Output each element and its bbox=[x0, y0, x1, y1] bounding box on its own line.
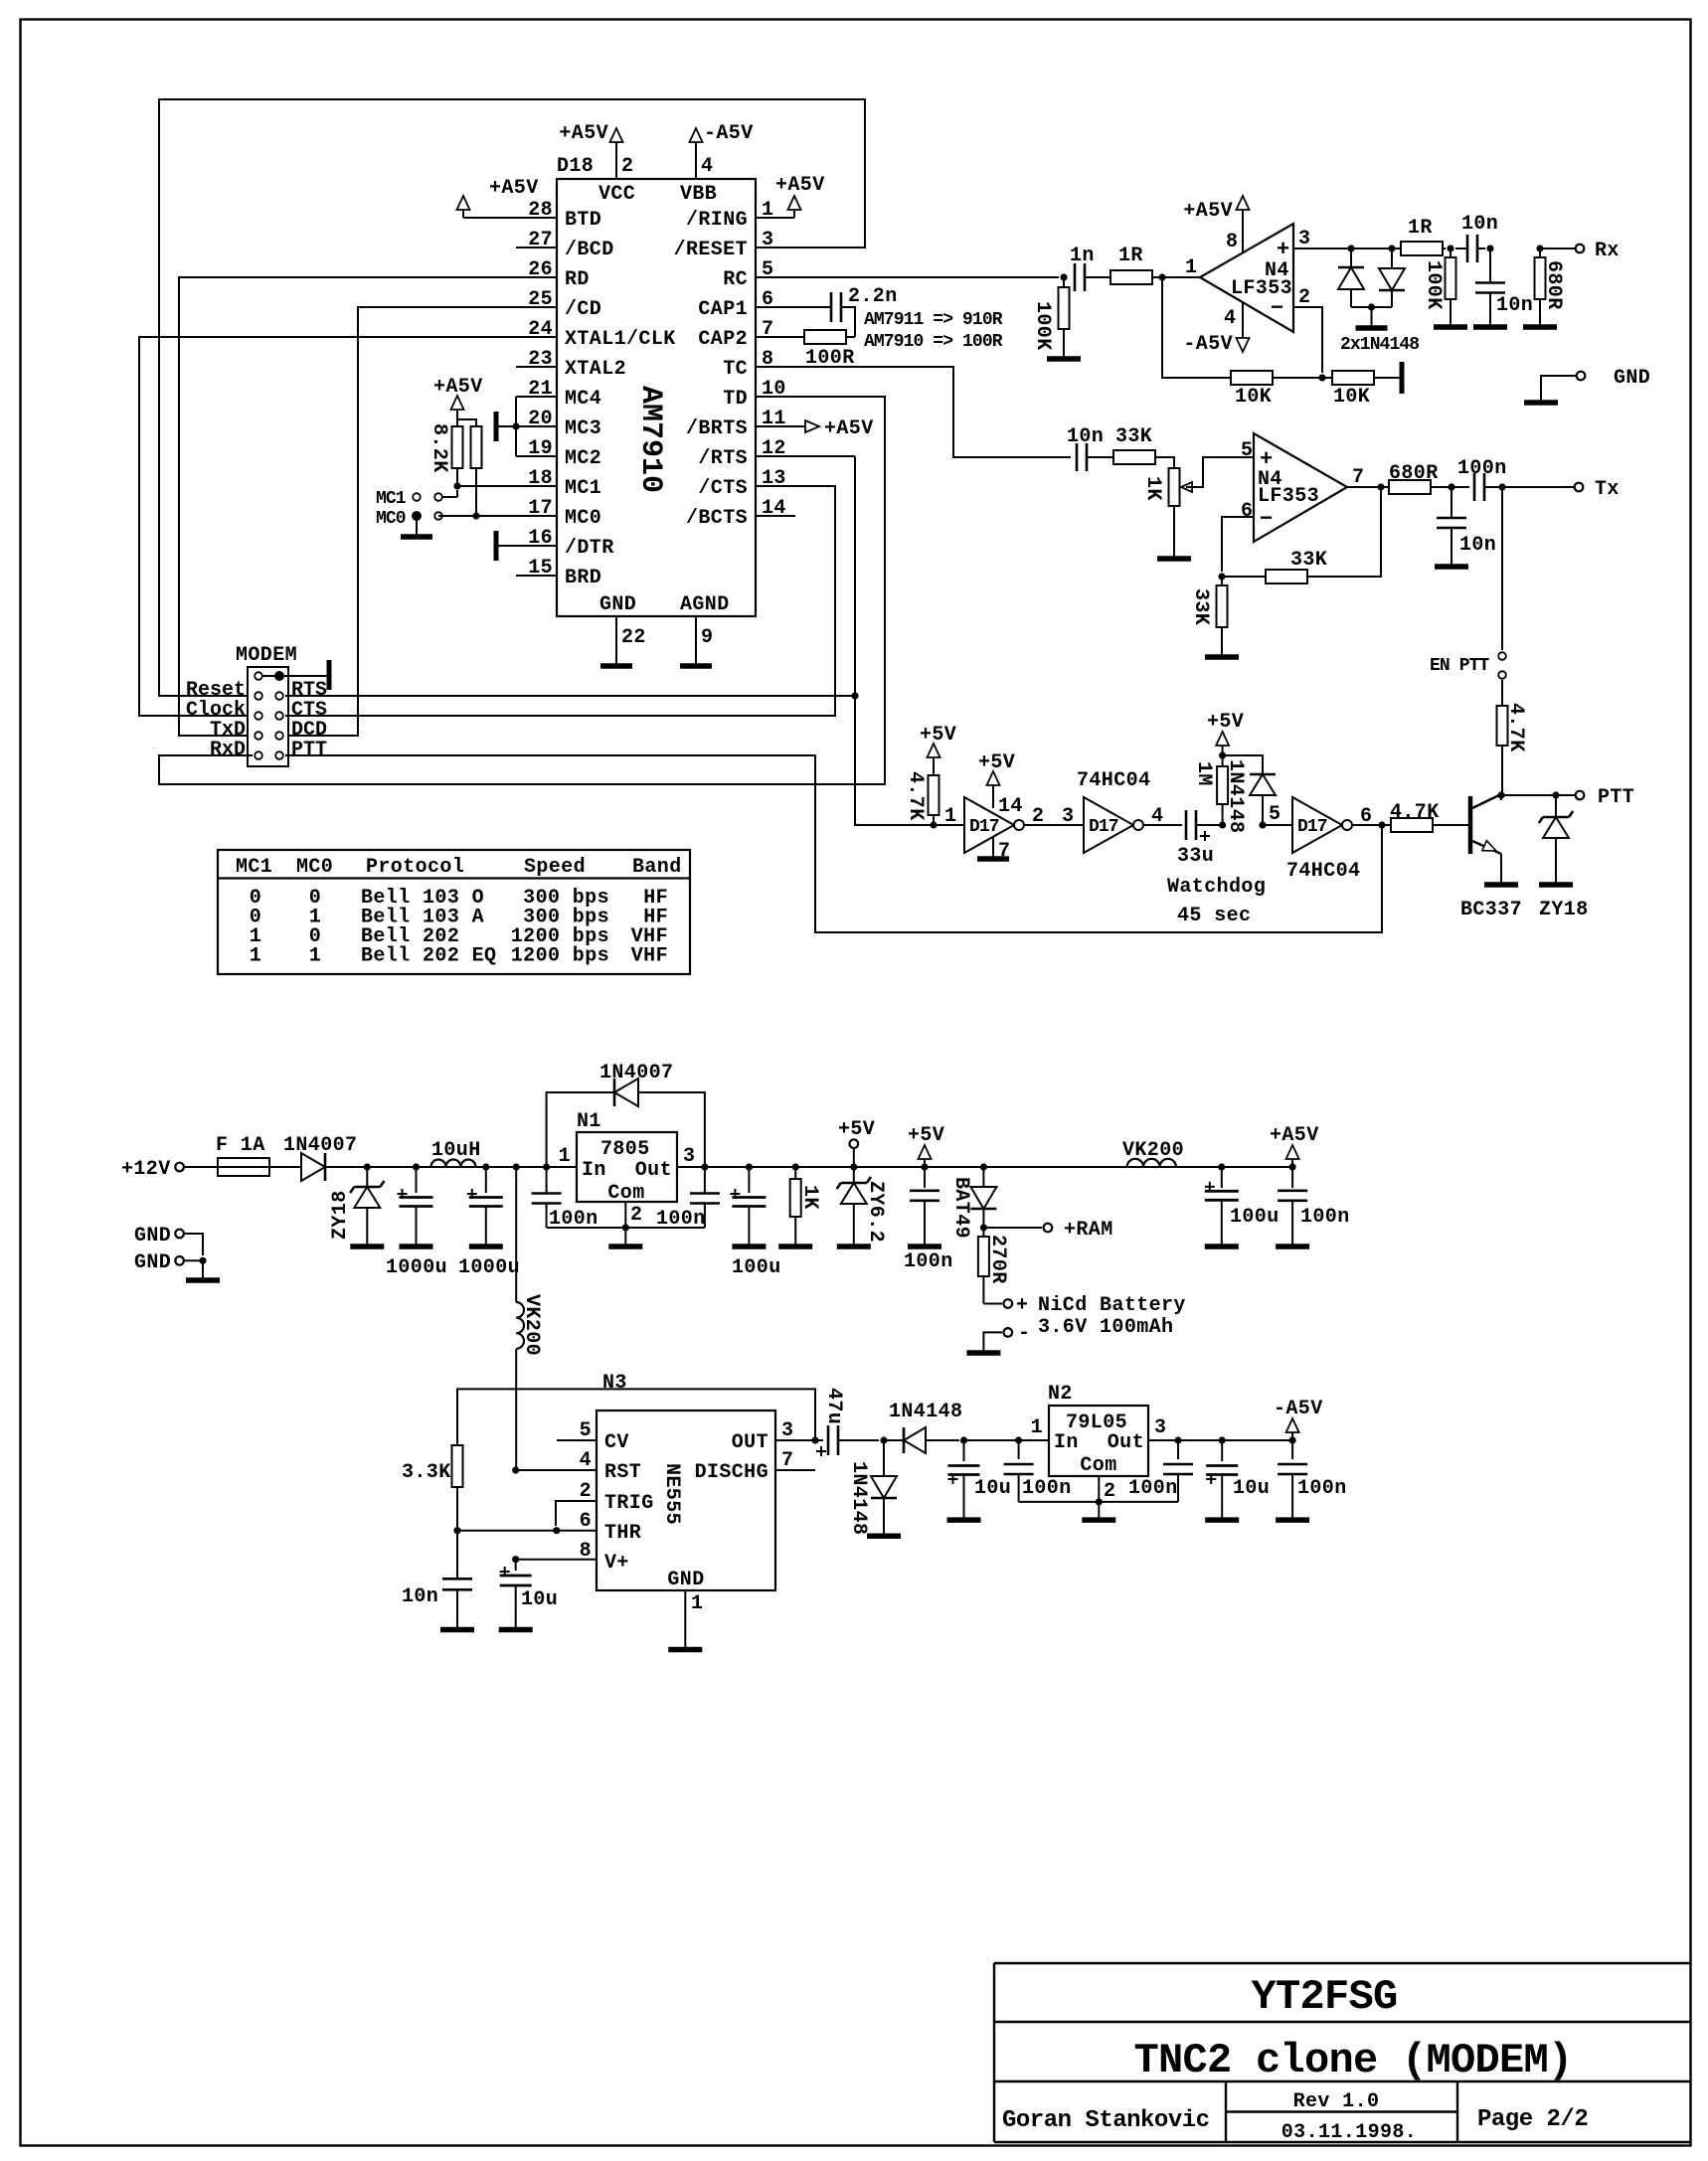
connector MODEM pins right bbox=[275, 692, 283, 759]
terminal Tx bbox=[1575, 483, 1584, 492]
wire to +RAM terminal bbox=[983, 1227, 1042, 1229]
junction OUT node bbox=[811, 1436, 818, 1443]
resistor 33K to gnd bbox=[1217, 577, 1228, 656]
resistor 3.3K bbox=[452, 1445, 463, 1487]
resistor 4.7K pullup bbox=[929, 757, 939, 825]
wire pot wiper to pin5 bbox=[1186, 457, 1254, 487]
wire feedback Tx bbox=[1222, 576, 1266, 578]
svg-text:100n: 100n bbox=[1128, 1477, 1178, 1500]
wire pin4 supply bbox=[1242, 303, 1244, 338]
svg-text:-A5V: -A5V bbox=[1274, 1398, 1323, 1420]
diode 1N4148 watchdog bbox=[1223, 755, 1276, 825]
capacitor 47u bbox=[815, 1425, 879, 1456]
junction 8.2K right pin17 bbox=[472, 512, 479, 519]
wire to battery plus bbox=[983, 1303, 1002, 1305]
junction RAM node bbox=[980, 1224, 987, 1231]
wire 33u to node bbox=[1196, 824, 1223, 826]
wire 33K feedback to out bbox=[1307, 487, 1381, 577]
svg-text:33K: 33K bbox=[1115, 425, 1152, 448]
svg-text:10u: 10u bbox=[521, 1588, 558, 1611]
wire pin 7 CAP2 bbox=[756, 336, 805, 338]
capacitor 1000u second bbox=[467, 1167, 503, 1246]
junction 100u power bbox=[746, 1163, 753, 1170]
supply arrow right pin11 bbox=[805, 420, 819, 432]
capacitor 10n series Rx bbox=[1455, 235, 1485, 262]
svg-text:GND: GND bbox=[1614, 367, 1650, 390]
svg-text:-A5V: -A5V bbox=[704, 122, 754, 145]
ground ZY6.2 bbox=[837, 1244, 871, 1249]
svg-text:MC2: MC2 bbox=[565, 447, 601, 470]
terminal battery minus bbox=[1004, 1328, 1013, 1337]
svg-text:Tx: Tx bbox=[1595, 478, 1620, 501]
jumper MC0 pads bbox=[412, 511, 422, 521]
capacitor 100n A5V neg bbox=[1278, 1440, 1307, 1519]
svg-text:GND: GND bbox=[134, 1225, 171, 1247]
ground 10u N3 bbox=[499, 1627, 533, 1633]
svg-text:22: 22 bbox=[621, 626, 646, 649]
wire 8.2K bottoms bbox=[456, 468, 458, 486]
svg-text:10u: 10u bbox=[974, 1477, 1011, 1500]
svg-text:1: 1 bbox=[944, 805, 956, 828]
resistor 1K power bbox=[790, 1167, 801, 1246]
supply +A5V arrow pin1 bbox=[788, 196, 801, 210]
wire 100R to corner bbox=[846, 336, 855, 338]
svg-text:4: 4 bbox=[580, 1449, 592, 1472]
junction 10n shunt Rx bbox=[1486, 245, 1493, 251]
svg-text:Com: Com bbox=[607, 1182, 644, 1205]
wire net XTAL1 Clock bbox=[139, 337, 557, 716]
junction pin6 node bbox=[1218, 573, 1225, 580]
junction RC 1n bbox=[1060, 273, 1067, 280]
capacitor 100u A5V bbox=[1205, 1167, 1239, 1246]
svg-text:100n: 100n bbox=[1457, 457, 1507, 480]
junction zener PTT bbox=[1552, 791, 1559, 798]
svg-text:2: 2 bbox=[1298, 286, 1310, 309]
wire GND to bar bbox=[202, 1260, 204, 1279]
wire opamp output bbox=[1347, 486, 1389, 488]
ground GND right bbox=[1524, 400, 1558, 406]
svg-text:1M: 1M bbox=[1192, 761, 1215, 786]
wire 7805 common rail bbox=[547, 1227, 705, 1229]
junction opamp out node bbox=[1158, 273, 1165, 280]
terminal GND input 1 bbox=[175, 1230, 203, 1255]
terminal +12V bbox=[175, 1163, 184, 1172]
svg-text:MC1: MC1 bbox=[565, 477, 601, 500]
inverter D17 third bbox=[1292, 797, 1342, 853]
diode 1N4007 bypass bbox=[614, 1079, 638, 1106]
svg-text:2: 2 bbox=[1104, 1480, 1115, 1503]
ground pot 1K bbox=[1157, 556, 1191, 562]
svg-text:+A5V: +A5V bbox=[775, 174, 825, 197]
svg-text:F 1A: F 1A bbox=[216, 1134, 265, 1157]
wire pin 4 VBB bbox=[695, 142, 697, 179]
svg-text:2.2n: 2.2n bbox=[848, 285, 898, 308]
diode 1N4148 down bbox=[1379, 249, 1405, 307]
supply +5V arrow watchdog bbox=[1216, 732, 1229, 755]
svg-text:TNC2 clone (MODEM): TNC2 clone (MODEM) bbox=[1133, 2037, 1572, 2084]
svg-text:1000u: 1000u bbox=[458, 1256, 520, 1279]
op-amp N4 LF353 unit A bbox=[1200, 224, 1293, 332]
svg-text:MC3: MC3 bbox=[565, 417, 601, 440]
resistor 33K Tx input bbox=[1113, 450, 1155, 464]
svg-text:5: 5 bbox=[1241, 439, 1253, 462]
svg-text:100K: 100K bbox=[1031, 301, 1054, 351]
resistor 8.2K right bbox=[471, 426, 482, 468]
svg-text:THR: THR bbox=[604, 1522, 641, 1545]
wire RST bbox=[516, 1469, 597, 1471]
ground emitter bbox=[1484, 882, 1518, 888]
IC D18 AM7910 body bbox=[557, 155, 756, 616]
svg-text:In: In bbox=[582, 1159, 606, 1182]
svg-text:1200 bps: 1200 bps bbox=[511, 945, 609, 968]
svg-text:Com: Com bbox=[1080, 1454, 1116, 1477]
wire pin 17 MC0 bbox=[438, 515, 557, 517]
wire CV stub bbox=[557, 1439, 597, 1441]
junction GND link bbox=[199, 1257, 206, 1264]
wire feedback bbox=[1162, 277, 1231, 378]
svg-text:BC337: BC337 bbox=[1460, 899, 1522, 921]
svg-text:4: 4 bbox=[701, 155, 713, 178]
svg-text:RD: RD bbox=[565, 268, 590, 291]
svg-text:+12V: +12V bbox=[121, 1158, 171, 1181]
svg-text:8.2K: 8.2K bbox=[427, 423, 450, 473]
wire 7805 bypass loop bbox=[547, 1092, 705, 1167]
wire 100n to Tx terminal bbox=[1484, 486, 1574, 488]
supply +A5V arrow 8.2K bbox=[451, 396, 464, 410]
junction collector bbox=[1497, 791, 1504, 798]
svg-text:5: 5 bbox=[1269, 803, 1281, 826]
ground 100K RC bbox=[1047, 356, 1081, 362]
svg-text:3: 3 bbox=[683, 1145, 695, 1168]
svg-text:PTT: PTT bbox=[1598, 786, 1634, 809]
svg-text:3.3K: 3.3K bbox=[402, 1461, 451, 1484]
svg-text:7: 7 bbox=[1352, 466, 1364, 489]
svg-text:V+: V+ bbox=[604, 1552, 629, 1575]
wire pin 9 AGND bbox=[695, 616, 697, 666]
ground 680R Rx bbox=[1523, 324, 1557, 330]
supply -A5V arrow pin4 bbox=[690, 128, 703, 142]
wire diode bottoms bbox=[1351, 306, 1392, 308]
capacitor 100u power bbox=[730, 1167, 766, 1246]
ground 10n shunt Rx bbox=[1473, 324, 1507, 330]
ground 100K Rx bbox=[1434, 324, 1467, 330]
svg-text:Bell 202 EQ: Bell 202 EQ bbox=[361, 945, 496, 968]
svg-text:AM7911 => 910R: AM7911 => 910R bbox=[864, 310, 1003, 330]
junction 10u N2 out bbox=[1219, 1436, 1226, 1443]
resistor 100R bbox=[804, 330, 846, 344]
junction +5V tap bbox=[850, 1163, 857, 1170]
junction feedback pin2 bbox=[1318, 374, 1325, 381]
svg-text:10n: 10n bbox=[1067, 425, 1104, 448]
svg-text:+A5V: +A5V bbox=[433, 376, 483, 399]
svg-text:3: 3 bbox=[1062, 805, 1074, 828]
terminal GND right bbox=[1541, 372, 1585, 402]
svg-text:AGND: AGND bbox=[680, 593, 730, 616]
svg-text:7805: 7805 bbox=[600, 1138, 650, 1161]
wire 680R to cap bbox=[1431, 486, 1469, 488]
junction diode 2 top bbox=[1388, 245, 1395, 251]
IC D18 right pin numbers bbox=[762, 199, 786, 520]
bar tick MC3 bbox=[494, 412, 499, 441]
supply +A5V arrow pin2 bbox=[610, 128, 623, 142]
wire pins 21 19 MC4 MC2 bracket bbox=[516, 396, 557, 398]
junction diode bottoms bbox=[1368, 303, 1375, 310]
supply +A5V arrow pin28 bbox=[457, 196, 470, 210]
capacitor 100n 7805 out bbox=[690, 1167, 720, 1228]
terminal +RAM bbox=[1044, 1224, 1053, 1233]
wire THR horizontal bbox=[457, 1530, 597, 1532]
svg-text:ZY6.2: ZY6.2 bbox=[864, 1181, 887, 1243]
diode 1N4148 series bbox=[884, 1427, 959, 1453]
svg-text:7: 7 bbox=[781, 1449, 793, 1472]
wire inv1 pin14 supply bbox=[992, 785, 994, 808]
capacitor 100n A5V bbox=[1278, 1167, 1307, 1246]
wire net RC pin5 bbox=[756, 276, 1059, 278]
svg-text:Goran Stankovic: Goran Stankovic bbox=[1002, 2107, 1210, 2134]
svg-text:2: 2 bbox=[580, 1480, 592, 1503]
wire pin 22 GND bbox=[615, 616, 617, 666]
junction RTS bbox=[851, 692, 858, 699]
potentiometer 1K bbox=[1169, 468, 1193, 506]
svg-text:BAT49: BAT49 bbox=[949, 1177, 972, 1239]
svg-text:1N4148: 1N4148 bbox=[847, 1461, 870, 1535]
svg-text:3: 3 bbox=[1154, 1416, 1166, 1439]
wire net RD TxD bbox=[179, 277, 557, 736]
svg-text:PTT: PTT bbox=[291, 739, 327, 761]
wire into 7805 bbox=[516, 1166, 577, 1168]
zener ZY18 power bbox=[350, 1167, 384, 1246]
svg-text:VK200: VK200 bbox=[520, 1294, 543, 1356]
ground 100n A5V bbox=[1276, 1244, 1309, 1249]
wire 8.2K tops to +A5V bbox=[457, 419, 476, 426]
svg-text:CAP1: CAP1 bbox=[698, 298, 748, 321]
wire net TC to 10n bbox=[756, 367, 1071, 457]
wire OUT pin3 bbox=[775, 1439, 815, 1441]
inverter D17 second bbox=[1084, 797, 1133, 853]
ground diodes bbox=[1356, 325, 1388, 331]
junction 1M top bbox=[1219, 751, 1226, 758]
svg-text:2: 2 bbox=[1032, 805, 1044, 828]
wire pot bottom bbox=[1173, 506, 1175, 558]
svg-text:+A5V: +A5V bbox=[1270, 1124, 1319, 1147]
svg-text:100n: 100n bbox=[1297, 1477, 1347, 1500]
svg-text:CAP2: CAP2 bbox=[698, 328, 748, 351]
IC D18 left pin stubs bbox=[516, 248, 557, 576]
wire pin 20 MC3 bbox=[497, 425, 557, 427]
svg-text:2: 2 bbox=[621, 155, 633, 178]
svg-text:MC0: MC0 bbox=[296, 856, 333, 879]
svg-text:+RAM: +RAM bbox=[1064, 1219, 1113, 1242]
svg-text:100R: 100R bbox=[805, 347, 855, 370]
table header MC1 MC0 Protocol Speed Band bbox=[236, 856, 682, 879]
svg-text:680R: 680R bbox=[1389, 462, 1439, 485]
ground 1K power bbox=[778, 1244, 812, 1249]
resistor 1R output bbox=[1401, 242, 1443, 255]
table data rows bbox=[250, 887, 668, 968]
ground pin22 bbox=[600, 663, 632, 669]
wire battery minus to gnd bbox=[983, 1332, 1002, 1352]
svg-text:33K: 33K bbox=[1189, 588, 1212, 625]
wire V+ bbox=[516, 1559, 597, 1561]
junction 10n Tx shunt bbox=[1448, 483, 1454, 490]
zener ZY18 PTT bbox=[1539, 795, 1573, 884]
svg-text:AM7910 => 100R: AM7910 => 100R bbox=[864, 332, 1003, 352]
bar tick /DTR bbox=[494, 531, 499, 561]
svg-text:100K: 100K bbox=[1422, 260, 1445, 310]
junction 47u diode bbox=[880, 1436, 887, 1443]
wire 10K to bar bbox=[1374, 377, 1400, 379]
svg-text:YT2FSG: YT2FSG bbox=[1251, 1973, 1397, 2021]
svg-text:33K: 33K bbox=[1290, 549, 1327, 572]
svg-text:1N4148: 1N4148 bbox=[889, 1401, 962, 1423]
svg-text:MC1: MC1 bbox=[236, 856, 272, 879]
supply +A5V arrow rail bbox=[1286, 1145, 1299, 1167]
wire to Rx terminal bbox=[1540, 248, 1575, 249]
svg-text:D18: D18 bbox=[557, 155, 594, 178]
capacitor 2.2n bbox=[830, 292, 833, 322]
svg-text:3.6V 100mAh: 3.6V 100mAh bbox=[1038, 1316, 1173, 1339]
capacitor 10n Tx shunt bbox=[1437, 487, 1466, 566]
svg-text:/RING: /RING bbox=[686, 209, 748, 232]
IC D18 right pin names bbox=[674, 209, 748, 530]
junction 100n N2 in bbox=[1015, 1436, 1022, 1443]
fuse F 1A bbox=[218, 1158, 269, 1176]
capacitor 10u N2 in bbox=[948, 1440, 980, 1519]
junction 1000u second bbox=[482, 1163, 489, 1170]
svg-text:Watchdog: Watchdog bbox=[1167, 876, 1266, 899]
svg-text:/CD: /CD bbox=[565, 298, 601, 321]
wire MC0 to ground bbox=[416, 516, 418, 537]
inverter D17 first bbox=[964, 797, 1014, 853]
svg-text:1N4007: 1N4007 bbox=[283, 1134, 357, 1157]
svg-text:680R: 680R bbox=[1542, 260, 1565, 310]
junction ZY18 power bbox=[364, 1163, 371, 1170]
svg-text:5: 5 bbox=[580, 1419, 592, 1442]
IC N2 79L05 body bbox=[1049, 1406, 1148, 1477]
zener ZY6.2 bbox=[837, 1167, 871, 1246]
svg-text:LF353: LF353 bbox=[1258, 485, 1319, 508]
wire net RxD TD bbox=[159, 397, 885, 784]
connector MODEM box bbox=[248, 667, 288, 766]
IC N3 NE555 body bbox=[597, 1411, 775, 1591]
ground 10u N2 in bbox=[947, 1517, 981, 1523]
junction BAT49 bbox=[980, 1163, 987, 1170]
supply +5V arrow rail bbox=[919, 1145, 932, 1167]
svg-text:100u: 100u bbox=[1230, 1206, 1280, 1229]
svg-text:3: 3 bbox=[1298, 228, 1310, 250]
capacitor 100n N2 out bbox=[1163, 1440, 1193, 1502]
svg-text:RC: RC bbox=[723, 268, 748, 291]
svg-text:1: 1 bbox=[1031, 1416, 1043, 1439]
ground pin9 bbox=[680, 663, 712, 669]
svg-text:3: 3 bbox=[781, 1419, 793, 1442]
wire pin3 output net bbox=[1293, 248, 1446, 249]
wire 4.7K to base bbox=[1433, 824, 1469, 826]
wire com pin2 bbox=[1098, 1476, 1100, 1502]
svg-text:270R: 270R bbox=[986, 1235, 1009, 1284]
svg-text:1000u: 1000u bbox=[386, 1256, 447, 1279]
svg-text:/DTR: /DTR bbox=[565, 537, 614, 560]
svg-text:Speed: Speed bbox=[524, 856, 586, 879]
ground com N2 bbox=[1082, 1517, 1115, 1523]
resistor 100K Rx bbox=[1446, 249, 1456, 326]
wire diode to rail bbox=[325, 1166, 577, 1168]
svg-text:LF353: LF353 bbox=[1231, 277, 1292, 300]
wire cap to corner bbox=[841, 307, 855, 337]
wire 3.3K to THR bbox=[456, 1487, 458, 1531]
svg-text:1: 1 bbox=[309, 945, 321, 968]
diode BAT49 bbox=[970, 1167, 996, 1228]
wire 7805 out rail bbox=[677, 1166, 1292, 1168]
svg-text:10u: 10u bbox=[1233, 1477, 1270, 1500]
svg-text:Protocol: Protocol bbox=[366, 856, 464, 879]
svg-text:-: - bbox=[1018, 1322, 1030, 1345]
supply +5V arrow inv1 bbox=[987, 771, 1000, 785]
jumper MC1 pads bbox=[413, 493, 421, 501]
wire to inverter 1 bbox=[934, 824, 964, 826]
capacitor 100n Tx bbox=[1473, 473, 1476, 501]
jumper EN PTT bbox=[1498, 652, 1506, 660]
IC N1 7805 body bbox=[577, 1132, 677, 1205]
svg-text:TD: TD bbox=[723, 388, 748, 411]
svg-text:MC1: MC1 bbox=[376, 489, 407, 509]
svg-text:10K: 10K bbox=[1333, 386, 1370, 409]
terminal +5V bbox=[850, 1139, 859, 1167]
bar tick feedback bbox=[1400, 362, 1405, 394]
junction Tx out bbox=[1377, 483, 1384, 490]
wire net /RTS RTS bbox=[285, 695, 855, 697]
svg-text:GND: GND bbox=[134, 1251, 171, 1274]
svg-text:1N4007: 1N4007 bbox=[599, 1062, 673, 1084]
svg-text:+5V: +5V bbox=[978, 751, 1015, 774]
op-amp N4 LF353 unit B bbox=[1254, 433, 1347, 542]
svg-text:ZY18: ZY18 bbox=[1539, 899, 1589, 921]
svg-text:100u: 100u bbox=[732, 1256, 781, 1279]
svg-text:10n: 10n bbox=[1461, 213, 1498, 236]
wire collector node bbox=[1500, 794, 1502, 800]
junction com N2 bbox=[1096, 1498, 1103, 1505]
wire inv2 to 33u bbox=[1143, 824, 1182, 826]
wire MC1 pad link bbox=[442, 496, 457, 498]
junction 680R Rx bbox=[1536, 245, 1543, 251]
ground 7805 bbox=[608, 1244, 642, 1249]
svg-text:/RESET: /RESET bbox=[674, 239, 748, 261]
resistor 100K RC bbox=[1059, 277, 1070, 358]
svg-text:MODEM: MODEM bbox=[236, 644, 297, 667]
svg-text:1R: 1R bbox=[1408, 217, 1433, 240]
junction VK200 tap bbox=[513, 1163, 520, 1170]
svg-text:N2: N2 bbox=[1048, 1383, 1073, 1406]
ground 33K bbox=[1205, 654, 1239, 660]
svg-text:1n: 1n bbox=[1070, 245, 1095, 267]
junction TRIG THR bbox=[553, 1527, 560, 1534]
svg-text:RST: RST bbox=[604, 1461, 641, 1484]
svg-text:74HC04: 74HC04 bbox=[1286, 860, 1360, 883]
junction +5V arrow tap bbox=[921, 1163, 928, 1170]
svg-text:10n: 10n bbox=[1459, 534, 1496, 557]
svg-text:+A5V: +A5V bbox=[559, 122, 608, 145]
svg-text:MC0: MC0 bbox=[376, 509, 406, 529]
svg-text:8: 8 bbox=[1226, 231, 1238, 253]
label + NiCd Battery bbox=[1016, 1294, 1186, 1317]
junction diode 1 top bbox=[1347, 245, 1354, 251]
wire pin 11 /BRTS bbox=[756, 425, 805, 427]
wire 79L05 out bbox=[1148, 1439, 1292, 1441]
resistor 1M bbox=[1217, 755, 1228, 825]
svg-text:Out: Out bbox=[1108, 1431, 1144, 1454]
svg-text:In: In bbox=[1054, 1431, 1079, 1454]
wire pin2 inverting bbox=[1293, 307, 1322, 373]
